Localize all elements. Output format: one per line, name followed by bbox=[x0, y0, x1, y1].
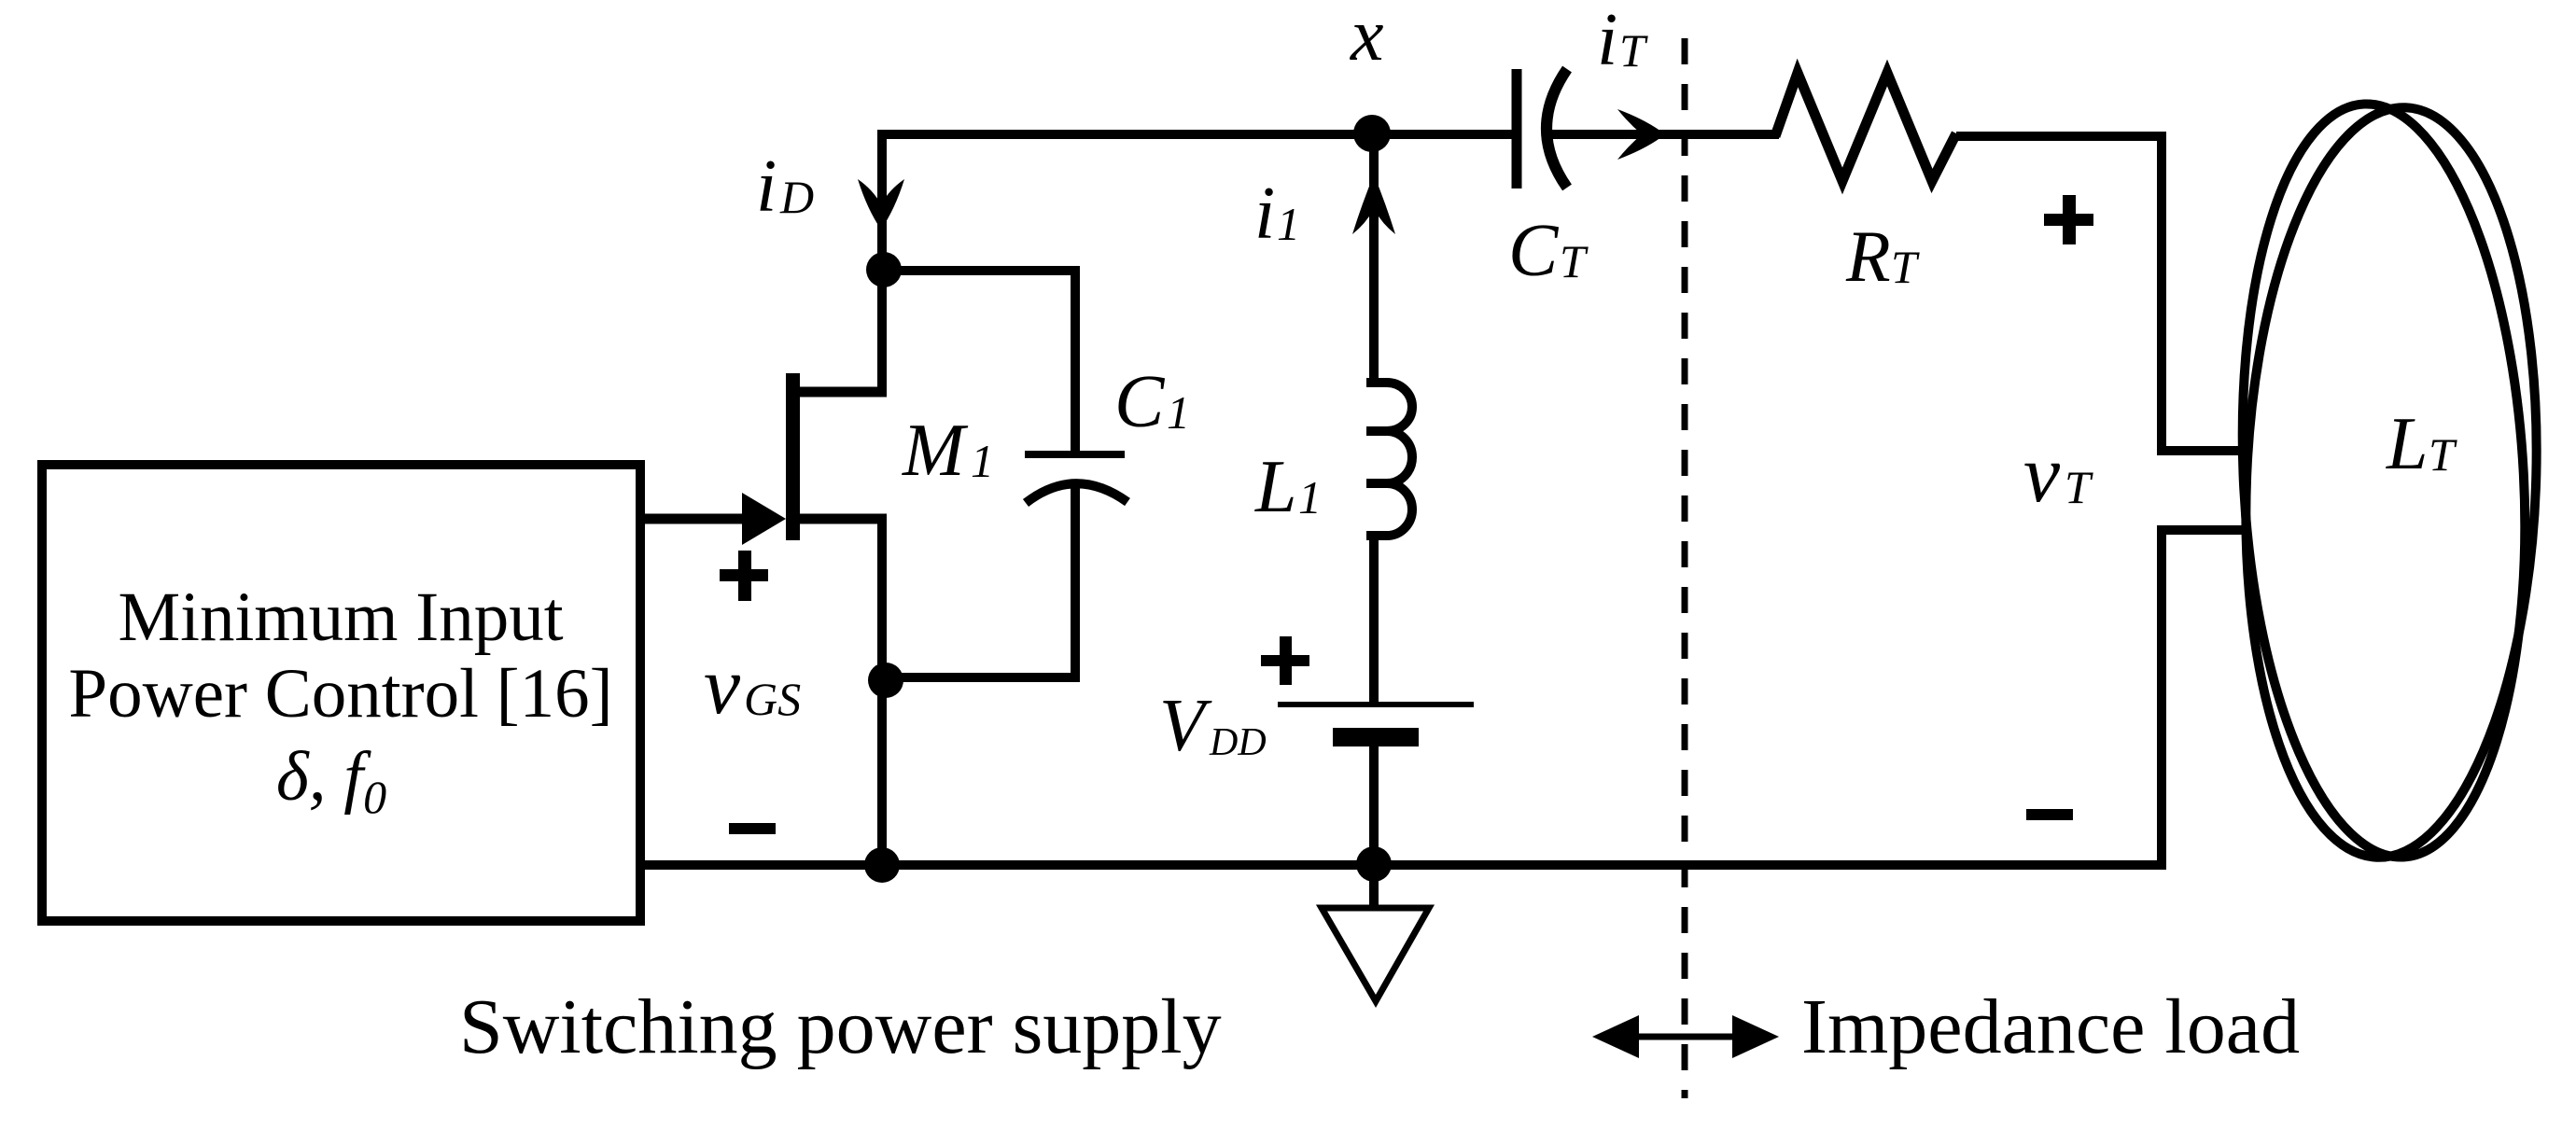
label vGS minus sign bbox=[729, 823, 776, 834]
battery VDD bbox=[1278, 705, 1474, 865]
label VDD bbox=[1159, 685, 1267, 767]
label L1 bbox=[1254, 446, 1322, 528]
svg-text:T: T bbox=[1619, 24, 1648, 77]
svg-text:1: 1 bbox=[1167, 386, 1190, 439]
capacitor C1 bbox=[1025, 454, 1127, 503]
svg-text:T: T bbox=[1891, 241, 1920, 293]
svg-text:T: T bbox=[1560, 235, 1589, 287]
resistor RT bbox=[1775, 73, 1956, 181]
svg-text:i: i bbox=[1254, 173, 1275, 255]
node x dot bbox=[1353, 115, 1391, 152]
svg-text:1: 1 bbox=[971, 435, 994, 487]
svg-text:C: C bbox=[1114, 361, 1166, 443]
svg-text:x: x bbox=[1350, 0, 1384, 77]
label vT bbox=[2023, 429, 2093, 520]
label RT bbox=[1845, 216, 1920, 297]
label i1 bbox=[1254, 173, 1300, 255]
current arrow iD bbox=[858, 179, 904, 230]
node: rail junction dot at source branch bbox=[864, 847, 900, 883]
wire: coil bottom terminal to bottom rail bbox=[2162, 530, 2246, 865]
coil LT bbox=[2224, 97, 2550, 865]
svg-text:v: v bbox=[2023, 429, 2061, 520]
current arrow iT bbox=[1617, 109, 1665, 160]
ground bbox=[1322, 865, 1429, 1001]
current arrow i1 bbox=[1352, 149, 1395, 383]
label vT plus sign bbox=[2044, 195, 2093, 244]
node: rail junction dot at battery/ground bbox=[1356, 846, 1392, 882]
node: source junction dot bbox=[868, 663, 903, 698]
svg-text:Minimum Input: Minimum Input bbox=[118, 579, 563, 656]
svg-text:R: R bbox=[1845, 216, 1891, 297]
control block: Minimum Input Power Control [16] bbox=[42, 465, 640, 921]
svg-text:1: 1 bbox=[1298, 471, 1322, 523]
wire: C1 bottom lead and branch to source node bbox=[887, 485, 1075, 677]
svg-text:D: D bbox=[779, 171, 814, 223]
node: drain junction dot bbox=[866, 252, 902, 287]
svg-text:i: i bbox=[756, 146, 777, 228]
svg-text:V: V bbox=[1159, 685, 1212, 767]
svg-text:C: C bbox=[1508, 210, 1560, 292]
inductor L1 bbox=[1366, 383, 1412, 536]
svg-text:M: M bbox=[902, 410, 969, 492]
svg-text:DD: DD bbox=[1209, 721, 1267, 764]
svg-text:T: T bbox=[2065, 461, 2093, 513]
svg-text:GS: GS bbox=[744, 673, 801, 725]
boundary dashed line bbox=[1682, 38, 1688, 1098]
wire: top rail from CT to resistor bbox=[1549, 130, 1779, 139]
label vT minus sign bbox=[2026, 809, 2073, 820]
label iT bbox=[1597, 0, 1648, 81]
wire: top rail from resistor to coil corner bbox=[1956, 136, 2246, 451]
capacitor CT bbox=[1517, 69, 1567, 188]
svg-text:Switching power supply: Switching power supply bbox=[459, 984, 1222, 1070]
label vGS plus sign bbox=[720, 551, 768, 601]
svg-text:L: L bbox=[1254, 446, 1297, 528]
wire: source vertical to bottom rail bbox=[877, 519, 887, 865]
label C1 bbox=[1114, 361, 1190, 443]
svg-text:L: L bbox=[2386, 403, 2429, 485]
wire: top rail from drain to node x bbox=[877, 130, 1512, 139]
battery VDD plus sign bbox=[1261, 636, 1309, 685]
svg-text:v: v bbox=[704, 641, 741, 732]
wire: gate lead from control block with arrowhead bbox=[640, 493, 786, 545]
label CT bbox=[1508, 210, 1589, 292]
svg-text:1: 1 bbox=[1277, 198, 1300, 250]
label iD bbox=[756, 146, 814, 228]
svg-text:Impedance load: Impedance load bbox=[1801, 984, 2300, 1070]
label vGS bbox=[704, 641, 801, 732]
transistor M1 bbox=[786, 373, 887, 540]
wire: bottom rail bbox=[640, 860, 2166, 870]
label M1 bbox=[902, 410, 994, 492]
label LT bbox=[2386, 403, 2457, 485]
wire: L1 bottom lead to battery bbox=[1369, 536, 1379, 705]
wire: branch to C1 top bbox=[884, 271, 1075, 451]
wire: drain vertical bbox=[877, 130, 887, 397]
svg-text:i: i bbox=[1597, 0, 1617, 81]
svg-text:T: T bbox=[2429, 428, 2457, 481]
svg-text:Power Control [16]: Power Control [16] bbox=[68, 655, 612, 732]
boundary double arrow bbox=[1592, 1015, 1779, 1058]
